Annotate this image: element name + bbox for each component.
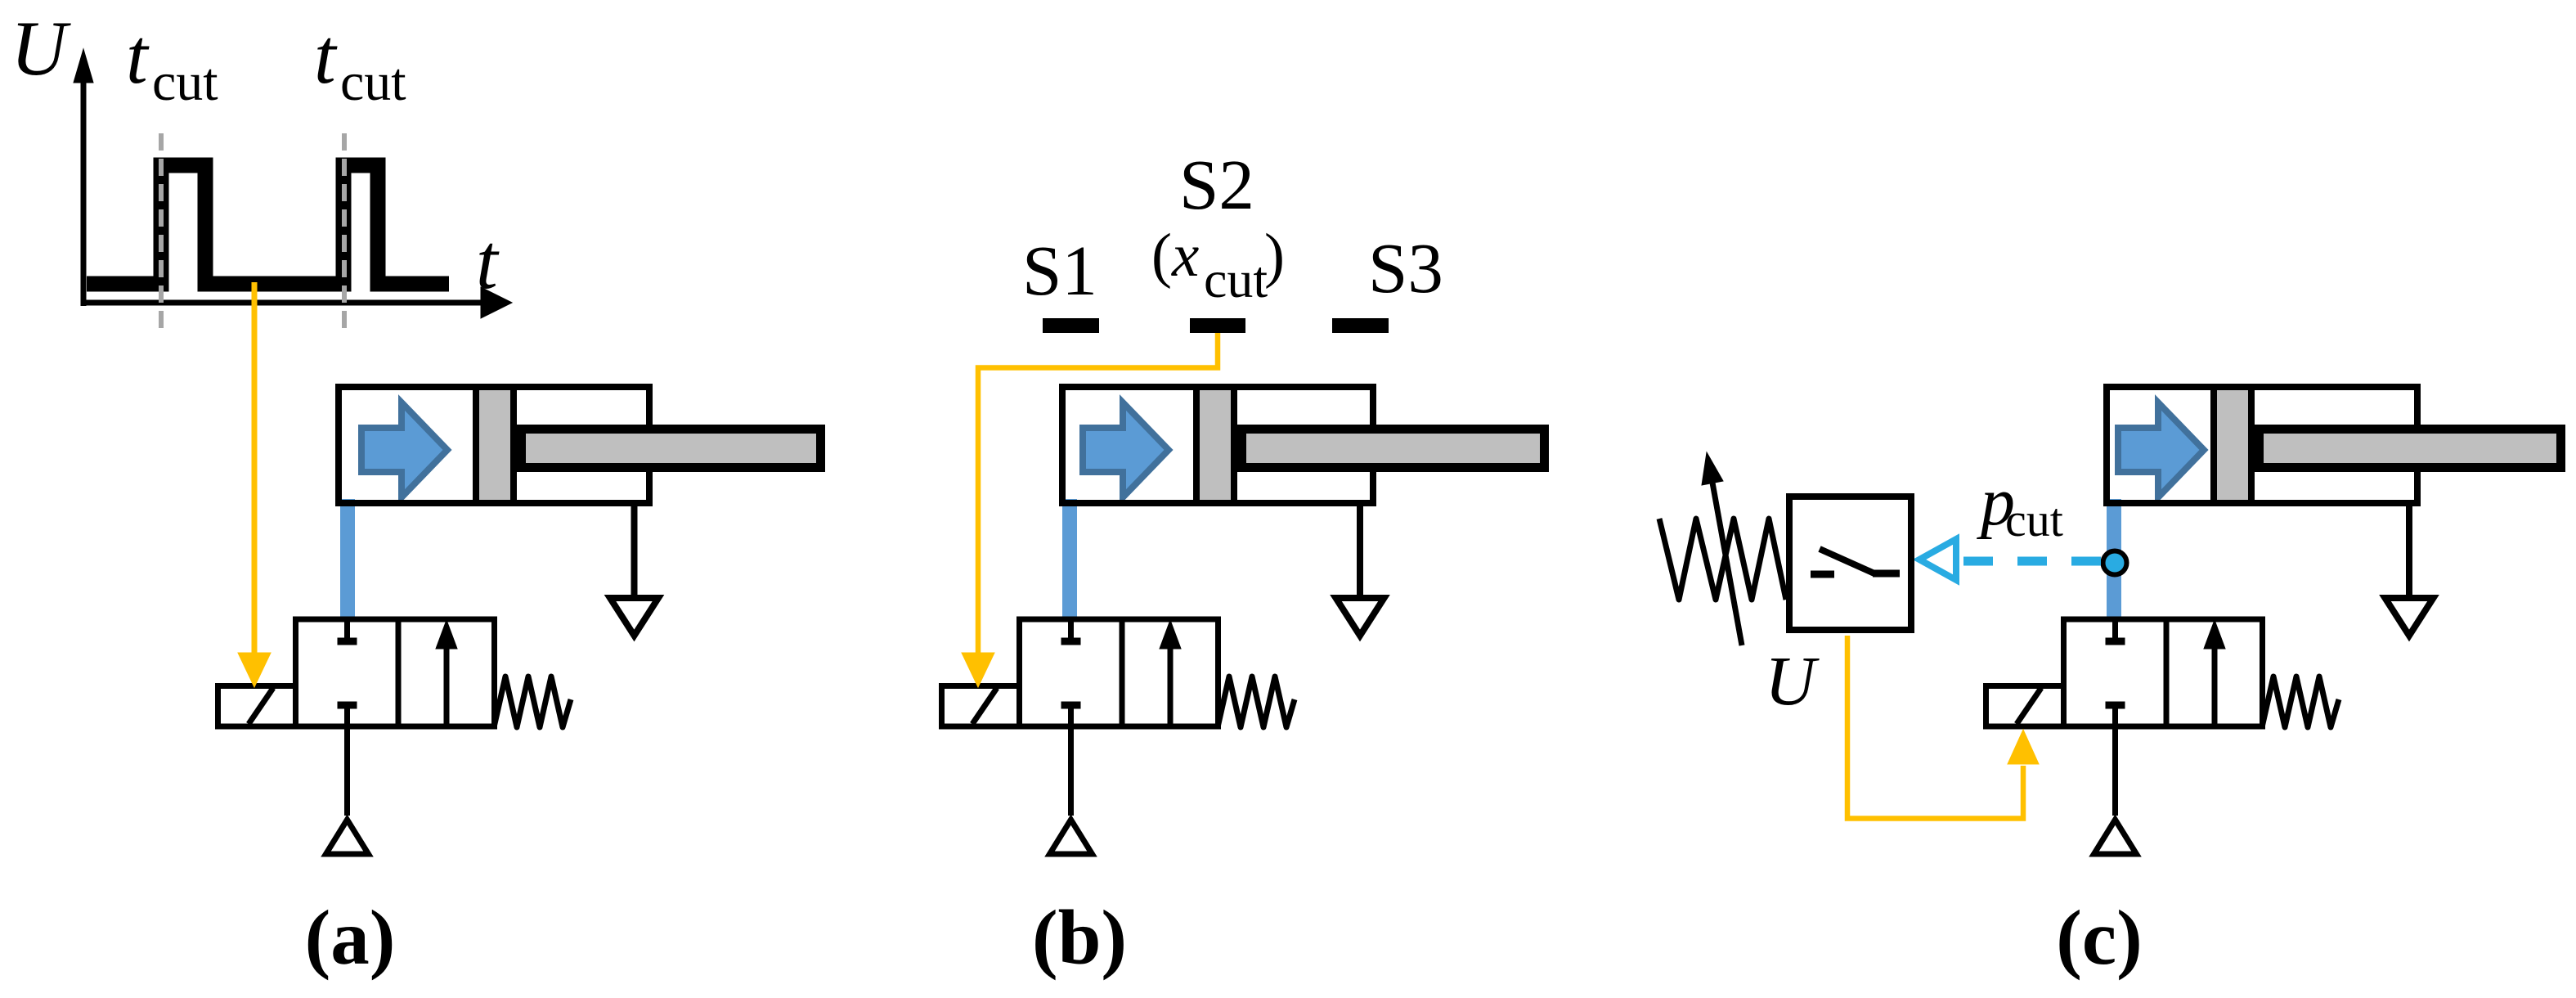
caption (c) (2056, 894, 2142, 981)
label S2 (1179, 145, 1254, 224)
pipe from cylinder A to valve (340, 499, 355, 617)
svg-text:): ) (1264, 222, 1285, 290)
cylinder C body (2107, 387, 2417, 503)
label S3 (1368, 228, 1443, 308)
label t (time axis) (476, 218, 500, 305)
caption (a) (305, 894, 396, 981)
valve B flow path arrow (1160, 620, 1181, 725)
valve B centre divider (1120, 619, 1125, 726)
cylinder C piston (2214, 387, 2251, 503)
svg-text:(a): (a) (305, 894, 396, 981)
svg-text:cut: cut (1204, 250, 1268, 308)
cylinder C blue pressure arrow (2118, 402, 2204, 497)
label U (switch output) (1765, 641, 1820, 720)
valve C blocked port top T (2106, 619, 2125, 641)
svg-text:U: U (1765, 641, 1820, 720)
valve A return spring (494, 677, 571, 727)
svg-text:t: t (126, 12, 150, 100)
pressure switch spring (1659, 519, 1786, 600)
valve A body (296, 619, 495, 726)
voltage pulse waveform (87, 165, 449, 284)
exhaust triangle under cylinder C (2385, 598, 2434, 636)
orange signal wire (c) (1847, 636, 2023, 819)
adjustment arrow line (1712, 483, 1742, 645)
valve C supply line (2112, 708, 2118, 816)
exhaust line under cylinder C rod end (2406, 501, 2412, 596)
sensor S3 bar (1332, 318, 1389, 333)
U axis vertical line (81, 78, 87, 306)
svg-text:(b): (b) (1032, 894, 1127, 981)
svg-text:U: U (11, 5, 71, 92)
svg-text:S1: S1 (1022, 231, 1097, 310)
dashed pressure sense line p_cut (1962, 557, 2101, 566)
svg-text:x: x (1171, 222, 1199, 290)
label U (voltage axis) (11, 5, 71, 92)
cylinder B piston (1196, 387, 1234, 503)
supply triangle under valve B (1050, 820, 1093, 854)
exhaust triangle under cylinder A (610, 598, 658, 636)
exhaust triangle under cylinder B (1336, 598, 1384, 636)
cylinder A piston (476, 387, 514, 503)
pressure switch box (1789, 497, 1911, 630)
svg-text:S3: S3 (1368, 228, 1443, 308)
pipe from cylinder C to valve (2107, 499, 2121, 617)
label p_cut (1977, 464, 2063, 546)
orange arrowhead (a) (238, 653, 271, 687)
node on pipe (c) (2103, 551, 2127, 575)
svg-text:cut: cut (152, 52, 218, 112)
valve A centre divider (396, 619, 402, 726)
svg-text:t: t (476, 218, 500, 305)
valve C flow path arrow (2204, 620, 2225, 725)
valve B blocked port top T (1061, 619, 1081, 641)
cylinder A body (339, 387, 649, 503)
label t_cut 2 (314, 12, 406, 112)
adjustment arrowhead (1702, 452, 1723, 485)
hollow arrowhead of sense line (1919, 539, 1956, 580)
cylinder B blue pressure arrow (1083, 402, 1169, 497)
dashed marker line t_cut 1 (159, 133, 164, 330)
exhaust line under cylinder A rod end (631, 501, 638, 596)
valve C solenoid box (1986, 686, 2064, 727)
valve A supply line (344, 708, 350, 816)
orange arrowhead (b) (962, 653, 994, 687)
svg-text:t: t (314, 12, 338, 100)
pipe from cylinder B to valve (1062, 499, 1077, 617)
t axis horizontal line (81, 300, 484, 306)
valve C blocked port bottom T (2106, 702, 2125, 709)
label (x_cut) (1151, 222, 1285, 308)
valve C centre divider (2164, 619, 2170, 726)
svg-text:cut: cut (2005, 493, 2063, 546)
svg-text:cut: cut (340, 52, 406, 112)
pressure switch contact (1811, 549, 1900, 574)
orange signal wire (a) (252, 282, 258, 654)
cylinder A piston rod (522, 429, 821, 468)
valve B blocked port bottom T (1061, 702, 1081, 709)
orange arrowhead (c) pointing up (2008, 730, 2039, 764)
valve A solenoid box (218, 686, 296, 727)
exhaust line under cylinder B rod end (1357, 501, 1363, 596)
supply triangle under valve A (326, 820, 369, 854)
valve A flow path arrow (436, 620, 457, 725)
valve A solenoid diagonal (249, 688, 273, 724)
svg-text:(c): (c) (2056, 894, 2142, 981)
svg-text:S2: S2 (1179, 145, 1254, 224)
valve B supply line (1068, 708, 1074, 816)
valve B solenoid diagonal (972, 688, 997, 724)
caption (b) (1032, 894, 1127, 981)
t axis arrowhead (481, 287, 512, 318)
valve C body (2064, 619, 2263, 726)
valve A blocked port bottom T (338, 702, 357, 709)
cylinder A blue pressure arrow (361, 402, 447, 497)
label t_cut 1 (126, 12, 218, 112)
U axis arrowhead (74, 49, 93, 83)
label S1 (1022, 231, 1097, 310)
valve B body (1020, 619, 1218, 726)
svg-text:(: ( (1151, 222, 1172, 290)
valve B solenoid box (942, 686, 1020, 727)
valve B return spring (1218, 677, 1295, 727)
cylinder B piston rod (1242, 429, 1545, 468)
cylinder C piston rod (2260, 429, 2561, 468)
cylinder B body (1062, 387, 1373, 503)
supply triangle under valve C (2094, 820, 2137, 854)
valve C return spring (2262, 677, 2339, 727)
sensor S2 bar (1190, 318, 1245, 333)
valve C solenoid diagonal (2017, 688, 2041, 724)
sensor S1 bar (1043, 318, 1099, 333)
valve A blocked port top T (338, 619, 357, 641)
orange signal wire (b) (978, 333, 1218, 654)
dashed marker line t_cut 2 (342, 133, 347, 330)
